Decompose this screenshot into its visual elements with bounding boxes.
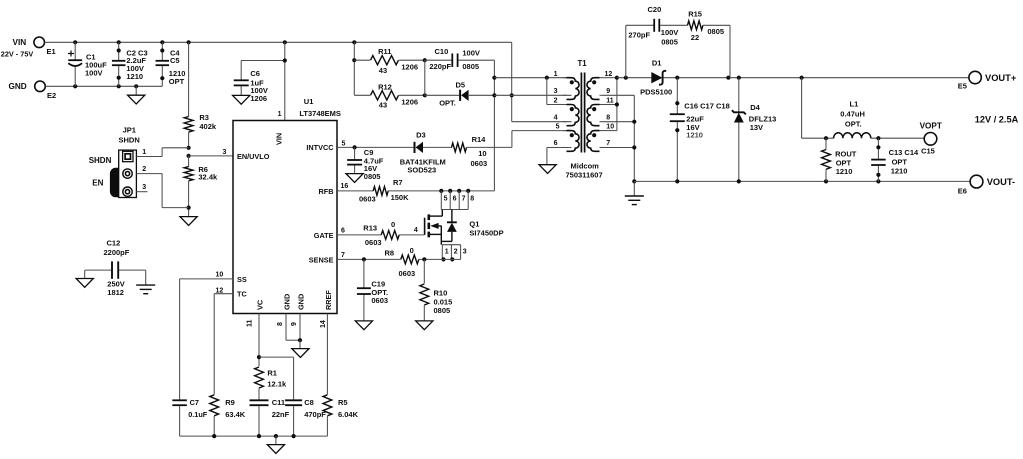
- svg-text:100V: 100V: [661, 28, 679, 37]
- wire bias winding to R14: [512, 131, 572, 148]
- capacitor C13 C14: [871, 138, 935, 181]
- resistor R7: [373, 178, 494, 202]
- svg-text:PDS5100: PDS5100: [640, 88, 672, 97]
- node Q1 source pins 1 2 3: [441, 245, 466, 262]
- svg-text:7: 7: [462, 196, 466, 203]
- svg-text:C8: C8: [304, 398, 314, 407]
- svg-text:R12: R12: [378, 82, 392, 91]
- transistor Q1 SI7450DP: [425, 210, 504, 245]
- svg-text:R9: R9: [225, 398, 235, 407]
- connector JP1 SHDN header: [89, 126, 147, 198]
- svg-text:RFB: RFB: [319, 187, 334, 196]
- svg-text:VOPT: VOPT: [920, 122, 942, 131]
- capacitor C10: [423, 47, 495, 71]
- capacitor C6: [234, 61, 285, 104]
- op-amp U1 LT3748EMS controller: [233, 97, 341, 314]
- svg-text:10: 10: [606, 124, 614, 131]
- ground compensation rail: [267, 445, 284, 454]
- svg-text:4: 4: [414, 227, 418, 234]
- ground U1 GND: [292, 349, 309, 358]
- svg-text:1210: 1210: [126, 72, 143, 81]
- wire GATE net: [337, 227, 381, 235]
- svg-text:22V - 75V: 22V - 75V: [1, 50, 34, 59]
- capacitor C16 C17 C18: [670, 78, 730, 182]
- capacitor C2 C3: [112, 42, 148, 86]
- svg-text:1: 1: [554, 71, 558, 78]
- svg-text:0603: 0603: [471, 159, 488, 168]
- svg-text:E6: E6: [958, 187, 967, 196]
- wire U1 GND pins 8 9: [277, 314, 302, 349]
- resistor R9: [210, 395, 246, 436]
- svg-text:C11: C11: [272, 398, 285, 407]
- diode D3: [400, 131, 452, 175]
- svg-text:0: 0: [410, 246, 414, 255]
- svg-text:11: 11: [247, 319, 254, 327]
- svg-text:100V: 100V: [85, 69, 103, 78]
- svg-text:22: 22: [691, 33, 699, 42]
- svg-text:12.1k: 12.1k: [267, 379, 287, 388]
- svg-text:11: 11: [606, 97, 614, 104]
- ground C12 secondary: [136, 285, 155, 294]
- resistor R10: [420, 259, 452, 321]
- wire VOUT- rail: [634, 179, 970, 183]
- svg-text:0603: 0603: [359, 195, 376, 204]
- svg-text:VOUT-: VOUT-: [987, 177, 1015, 187]
- wire JP1 pin2 to ground node: [136, 174, 188, 208]
- svg-text:1: 1: [445, 248, 449, 255]
- ground C9: [346, 174, 363, 183]
- svg-text:SHDN: SHDN: [119, 136, 140, 145]
- svg-text:100V: 100V: [462, 49, 480, 58]
- svg-text:4: 4: [554, 114, 558, 121]
- svg-text:5: 5: [342, 140, 346, 147]
- svg-text:Midcom: Midcom: [571, 161, 600, 170]
- svg-text:1206: 1206: [250, 94, 267, 103]
- svg-text:R13: R13: [363, 223, 377, 232]
- svg-text:LT3748EMS: LT3748EMS: [299, 109, 341, 118]
- svg-text:1: 1: [278, 111, 282, 118]
- svg-text:D4: D4: [750, 103, 760, 112]
- svg-text:220pF: 220pF: [429, 62, 451, 71]
- wire transformer pin 6: [547, 148, 572, 165]
- svg-text:0805: 0805: [434, 306, 451, 315]
- wire EN/UVLO net: [189, 149, 233, 156]
- capacitor C19: [357, 259, 388, 321]
- svg-text:R15: R15: [688, 10, 702, 19]
- svg-text:13V: 13V: [750, 123, 763, 132]
- svg-text:ROUT: ROUT: [835, 149, 857, 158]
- svg-text:0603: 0603: [399, 269, 416, 278]
- svg-text:E1: E1: [47, 47, 56, 56]
- wire JP1 pin1 to EN node: [136, 148, 188, 157]
- svg-text:GATE: GATE: [314, 231, 334, 240]
- svg-text:OPT: OPT: [836, 158, 852, 167]
- wire RREF net: [320, 314, 328, 395]
- svg-text:C10: C10: [435, 47, 449, 56]
- wire JP1 pin3 stub: [136, 191, 147, 193]
- svg-text:R10: R10: [434, 289, 448, 298]
- svg-text:3: 3: [223, 149, 227, 156]
- svg-text:VC: VC: [256, 299, 265, 310]
- svg-text:8: 8: [470, 196, 474, 203]
- svg-text:6: 6: [341, 227, 345, 234]
- svg-text:R14: R14: [472, 135, 487, 144]
- svg-text:R5: R5: [338, 398, 348, 407]
- svg-text:C15: C15: [921, 147, 935, 156]
- resistor R15: [687, 10, 730, 78]
- svg-text:R7: R7: [393, 178, 403, 187]
- svg-text:1812: 1812: [107, 288, 124, 297]
- svg-text:T1: T1: [578, 59, 588, 68]
- svg-text:SI7450DP: SI7450DP: [469, 228, 503, 237]
- svg-text:OPT: OPT: [892, 158, 908, 167]
- svg-text:E5: E5: [958, 82, 967, 91]
- svg-text:2: 2: [454, 248, 458, 255]
- resistor R6: [184, 156, 218, 217]
- svg-text:12: 12: [216, 287, 224, 294]
- svg-text:63.4K: 63.4K: [225, 410, 246, 419]
- node GND input terminal E2: [9, 81, 57, 100]
- svg-text:GND: GND: [9, 82, 27, 91]
- svg-text:12: 12: [605, 71, 613, 78]
- diode D5: [423, 60, 495, 107]
- svg-text:1210: 1210: [836, 167, 853, 176]
- svg-text:SOD523: SOD523: [407, 165, 436, 174]
- svg-text:0805: 0805: [707, 27, 724, 36]
- svg-text:0805: 0805: [661, 37, 678, 46]
- svg-text:2200pF: 2200pF: [104, 248, 130, 257]
- svg-text:750311607: 750311607: [566, 171, 603, 180]
- svg-text:D3: D3: [416, 131, 426, 140]
- svg-text:3: 3: [554, 88, 558, 95]
- svg-text:D5: D5: [456, 81, 466, 90]
- svg-text:43: 43: [379, 66, 387, 75]
- node VOPT terminal: [920, 122, 942, 146]
- svg-text:9: 9: [291, 322, 298, 326]
- svg-text:16: 16: [341, 183, 349, 190]
- svg-text:2: 2: [554, 97, 558, 104]
- capacitor C1: [68, 42, 107, 86]
- ground transformer primary: [539, 165, 556, 174]
- svg-text:0805: 0805: [462, 62, 479, 71]
- svg-text:C7: C7: [190, 398, 199, 407]
- wire VIN top rail: [45, 40, 512, 44]
- wire pin12 to D1 anode: [617, 76, 651, 80]
- svg-text:INTVCC: INTVCC: [306, 143, 334, 152]
- svg-text:5: 5: [556, 124, 560, 131]
- svg-text:2: 2: [142, 166, 146, 173]
- label output rating: [975, 115, 1019, 125]
- svg-text:SHDN: SHDN: [89, 156, 112, 165]
- resistor ROUT: [822, 138, 857, 181]
- ground secondary: [625, 181, 644, 204]
- wire RFB net: [337, 183, 376, 203]
- svg-text:22nF: 22nF: [272, 410, 290, 419]
- wire secondary pins 12 11 10 link: [603, 76, 619, 131]
- svg-text:6: 6: [554, 140, 558, 147]
- svg-text:12V / 2.5A: 12V / 2.5A: [975, 115, 1019, 125]
- wire VIN to transformer pins 3 4: [510, 42, 572, 121]
- node VOUT+ terminal E5: [958, 71, 1017, 90]
- resistor R1: [255, 367, 287, 400]
- svg-text:1210: 1210: [891, 166, 908, 175]
- svg-text:1: 1: [142, 149, 146, 156]
- svg-text:U1: U1: [304, 97, 314, 106]
- diode D4 DFLZ13 zener: [732, 78, 776, 182]
- svg-text:VIN: VIN: [275, 133, 284, 145]
- resistor R14: [452, 135, 512, 168]
- svg-text:GND: GND: [297, 294, 306, 310]
- svg-text:0603: 0603: [371, 296, 388, 305]
- wire transformer pin 3 row: [494, 94, 571, 96]
- ground C19: [355, 321, 372, 330]
- wire VOUT+ rail junctions: [675, 76, 804, 80]
- capacitor C9: [347, 147, 384, 180]
- capacitor C4 C5: [156, 42, 186, 86]
- resistor R12: [354, 82, 425, 109]
- svg-text:GND: GND: [283, 294, 292, 310]
- svg-text:E2: E2: [47, 91, 56, 100]
- svg-text:JP1: JP1: [123, 126, 136, 135]
- svg-text:C13 C14: C13 C14: [889, 148, 919, 157]
- svg-text:3: 3: [463, 248, 467, 255]
- capacitor C12: [85, 239, 146, 297]
- resistor R5: [323, 395, 359, 436]
- wire clamp from VIN rail: [352, 42, 356, 95]
- svg-text:7: 7: [341, 252, 345, 259]
- svg-text:VIN: VIN: [13, 38, 27, 47]
- svg-text:0.1uF: 0.1uF: [188, 410, 208, 419]
- node EN divider junction: [187, 146, 191, 158]
- wire drain node (snubber to Q1): [492, 60, 496, 191]
- svg-text:7: 7: [606, 140, 610, 147]
- svg-text:0.47uH: 0.47uH: [840, 109, 865, 118]
- capacitor C20: [626, 5, 688, 78]
- svg-text:C6: C6: [250, 69, 260, 78]
- svg-text:OPT.: OPT.: [845, 119, 862, 128]
- svg-text:6.04K: 6.04K: [338, 410, 359, 419]
- wire VC to C8: [259, 357, 294, 400]
- svg-text:R11: R11: [378, 47, 391, 56]
- capacitor C11: [250, 398, 290, 436]
- svg-text:14: 14: [320, 320, 327, 328]
- svg-text:10: 10: [478, 149, 486, 158]
- svg-text:R8: R8: [385, 249, 395, 258]
- resistor R11: [354, 47, 425, 75]
- svg-text:32.4k: 32.4k: [198, 173, 218, 182]
- svg-text:270pF: 270pF: [628, 30, 650, 39]
- svg-text:EN/UVLO: EN/UVLO: [237, 152, 270, 161]
- wire secondary pins 9 8 7 link: [603, 95, 636, 183]
- svg-text:TC: TC: [237, 290, 247, 299]
- svg-text:8: 8: [606, 114, 610, 121]
- diode D1 PDS5100: [640, 58, 969, 96]
- svg-text:Q1: Q1: [469, 220, 479, 229]
- ground C12 primary: [76, 279, 93, 288]
- capacitor C7: [172, 398, 207, 436]
- svg-text:C20: C20: [648, 5, 662, 14]
- svg-text:C12: C12: [107, 239, 121, 248]
- svg-text:1210: 1210: [686, 131, 703, 140]
- wire TC net: [214, 287, 233, 394]
- resistor R3: [184, 42, 217, 148]
- svg-text:1206: 1206: [401, 97, 418, 106]
- svg-text:OPT.: OPT.: [439, 98, 456, 107]
- wire SS net: [180, 272, 233, 400]
- svg-text:SS: SS: [237, 275, 247, 284]
- svg-text:150K: 150K: [391, 193, 410, 202]
- svg-text:0: 0: [391, 220, 395, 229]
- ground R10: [416, 321, 433, 330]
- wire input GND rail: [45, 84, 162, 88]
- svg-text:0603: 0603: [365, 238, 382, 247]
- svg-text:RREF: RREF: [324, 290, 333, 310]
- svg-text:10: 10: [216, 272, 224, 279]
- svg-text:9: 9: [606, 88, 610, 95]
- node Q1 drain pins 5 6 7 8: [439, 189, 474, 210]
- inductor L1: [802, 78, 924, 141]
- svg-text:402k: 402k: [199, 122, 217, 131]
- ground input rail: [128, 86, 145, 104]
- resistor R8: [385, 246, 461, 278]
- wire compensation ground rail: [180, 434, 328, 445]
- svg-text:EN: EN: [92, 179, 103, 188]
- ground EN divider: [180, 217, 197, 226]
- node VIN input terminal E1: [1, 37, 56, 59]
- transformer T1 Midcom 750311607: [554, 59, 615, 180]
- svg-text:5: 5: [444, 196, 448, 203]
- svg-text:OPT: OPT: [169, 77, 185, 86]
- svg-text:0805: 0805: [364, 172, 381, 181]
- wire VC net: [247, 314, 262, 367]
- wire SENSE net: [337, 252, 401, 262]
- svg-text:L1: L1: [850, 99, 859, 108]
- svg-text:R1: R1: [267, 368, 277, 377]
- svg-text:3: 3: [142, 184, 146, 191]
- svg-text:C5: C5: [170, 56, 180, 65]
- svg-text:VOUT+: VOUT+: [985, 73, 1017, 83]
- svg-text:SENSE: SENSE: [309, 255, 334, 264]
- resistor R13: [363, 220, 424, 247]
- svg-text:D1: D1: [652, 58, 662, 67]
- svg-text:R3: R3: [199, 113, 209, 122]
- wire transformer pin 1 row: [494, 76, 571, 105]
- node VOUT- terminal E6: [958, 175, 1015, 195]
- svg-text:C16 C17 C18: C16 C17 C18: [684, 102, 729, 111]
- svg-text:6: 6: [453, 196, 457, 203]
- svg-text:22uF: 22uF: [686, 114, 704, 123]
- svg-text:8: 8: [277, 322, 284, 326]
- capacitor C8: [285, 398, 326, 436]
- wire INTVCC net: [337, 140, 414, 149]
- svg-text:DFLZ13: DFLZ13: [749, 114, 777, 123]
- svg-text:1206: 1206: [401, 62, 418, 71]
- svg-text:43: 43: [379, 100, 387, 109]
- wire U1 VIN pin 1: [278, 42, 287, 120]
- ground C6: [233, 95, 250, 104]
